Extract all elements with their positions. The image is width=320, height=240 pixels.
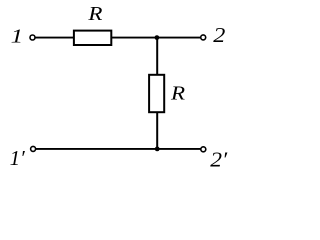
svg-text:1: 1	[11, 25, 23, 47]
terminal 1' (open circle)	[31, 146, 36, 151]
node A (junction dot, top rail)	[155, 35, 160, 40]
wire: node A down to resistor R (shunt) and node B	[156, 38, 158, 149]
svg-text:2: 2	[213, 23, 225, 46]
svg-text:2′: 2′	[210, 148, 228, 172]
wire: resistor R (series) to node A and terminal 2	[112, 37, 201, 39]
resistor R (series, horizontal body)	[74, 31, 111, 45]
svg-text:R: R	[170, 82, 185, 104]
svg-text:R: R	[87, 2, 102, 24]
wire: terminal 1 to resistor R (series)	[35, 37, 74, 39]
terminal 2' (open circle)	[201, 147, 206, 152]
wire: bottom rail terminal 1' to terminal 2'	[36, 148, 201, 150]
svg-text:1′: 1′	[10, 146, 26, 170]
resistor R (shunt, vertical body)	[149, 75, 164, 112]
terminal 1 (open circle)	[30, 35, 35, 40]
terminal 2 (open circle)	[201, 35, 206, 40]
node B (junction dot, bottom rail)	[155, 147, 160, 152]
